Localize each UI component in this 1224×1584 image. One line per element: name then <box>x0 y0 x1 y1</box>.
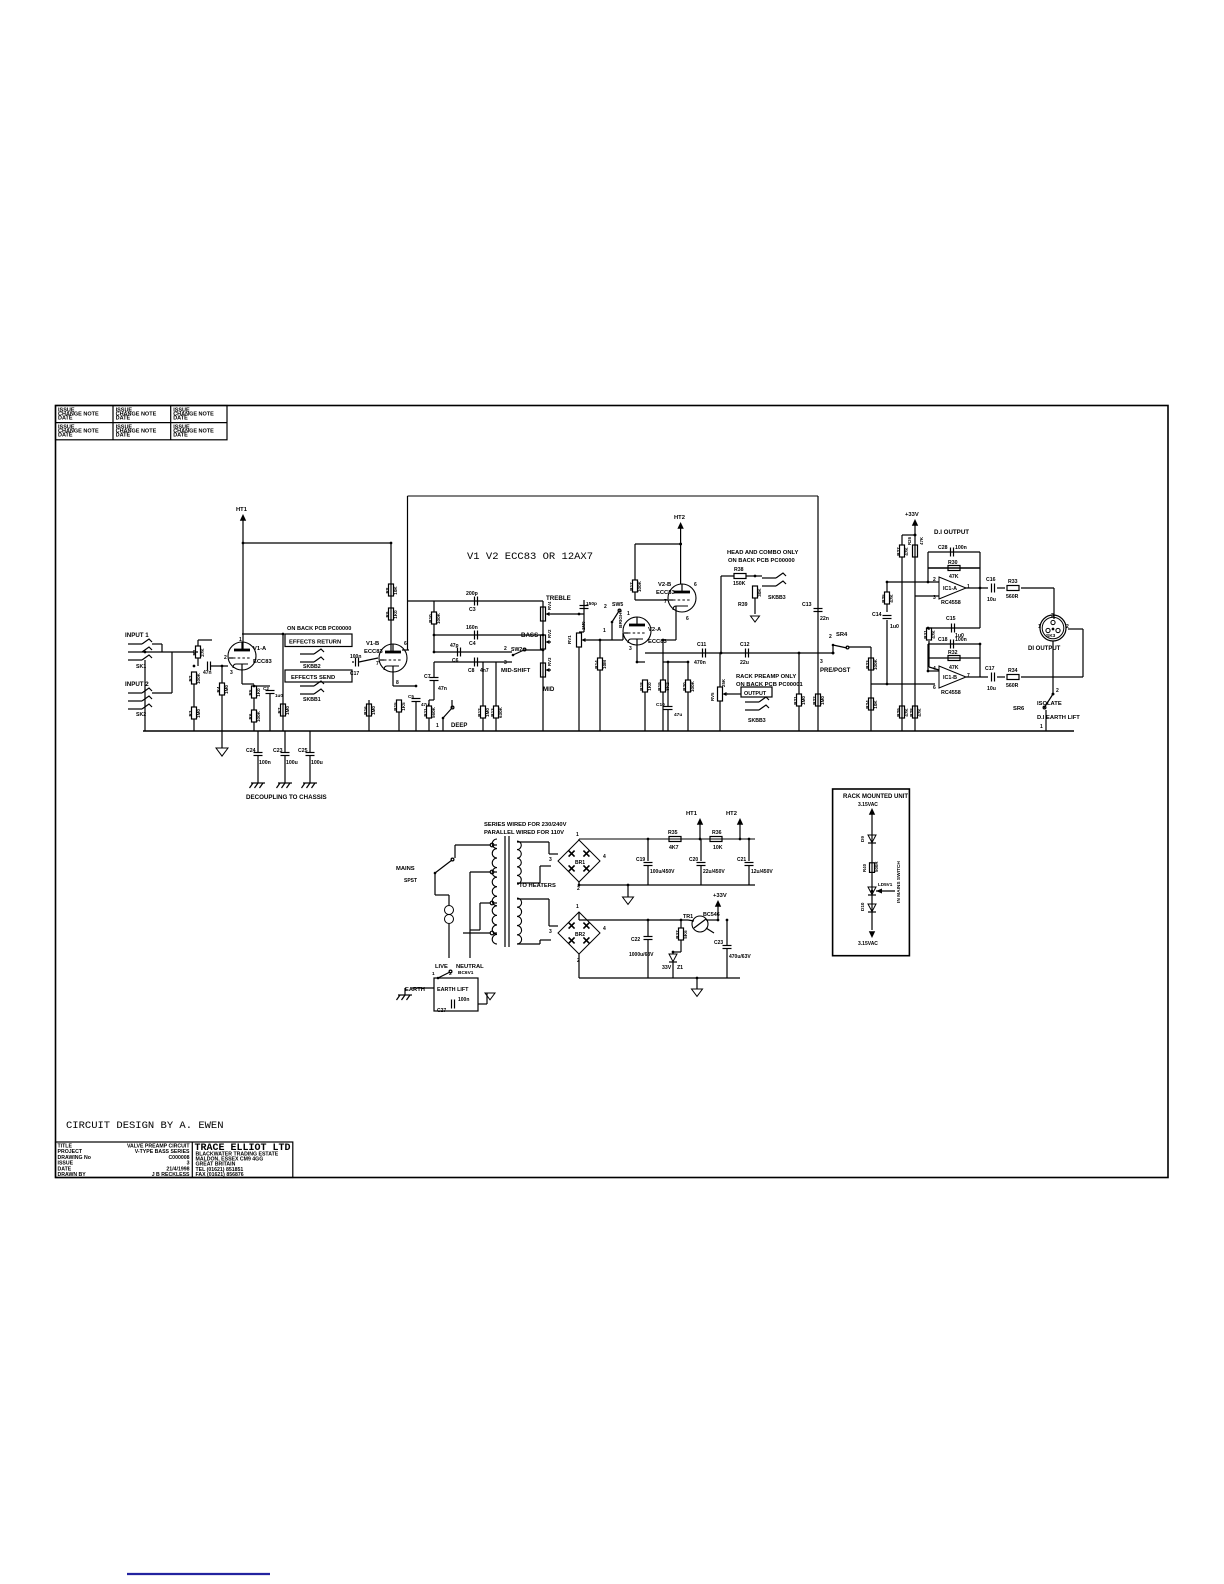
svg-text:C23: C23 <box>714 940 723 946</box>
svg-text:R6: R6 <box>248 713 253 719</box>
svg-text:ON BACK PCB PC00000: ON BACK PCB PC00000 <box>728 558 795 564</box>
svg-text:ISOLATE: ISOLATE <box>1037 701 1062 707</box>
svg-text:1M0: 1M0 <box>801 696 806 705</box>
svg-text:CIRCUIT DESIGN BY A. EWEN: CIRCUIT DESIGN BY A. EWEN <box>66 1120 224 1132</box>
svg-text:SERIES WIRED FOR 230/240V: SERIES WIRED FOR 230/240V <box>484 822 567 828</box>
svg-text:HT1: HT1 <box>236 507 248 513</box>
svg-text:+33V: +33V <box>713 893 727 899</box>
svg-text:R39: R39 <box>738 602 748 608</box>
svg-text:SKBB3: SKBB3 <box>748 718 766 724</box>
svg-text:2: 2 <box>224 655 227 661</box>
svg-text:RC4558: RC4558 <box>941 690 961 696</box>
svg-text:BC6V1: BC6V1 <box>458 970 474 976</box>
svg-text:SKBB3: SKBB3 <box>768 595 786 601</box>
svg-text:10M: 10M <box>602 660 607 669</box>
svg-text:100K: 100K <box>256 710 261 722</box>
svg-text:200p: 200p <box>466 591 478 597</box>
svg-text:100u: 100u <box>311 760 323 766</box>
svg-text:47K: 47K <box>931 630 936 639</box>
svg-text:R2: R2 <box>188 675 193 681</box>
svg-text:C10: C10 <box>656 702 665 708</box>
svg-text:C11: C11 <box>697 642 706 648</box>
svg-text:10u: 10u <box>987 686 996 692</box>
svg-text:SR6: SR6 <box>1013 706 1025 712</box>
svg-text:100K: 100K <box>637 580 642 592</box>
svg-text:1M0: 1M0 <box>285 706 290 715</box>
svg-text:DATE: DATE <box>116 415 131 421</box>
svg-text:R11: R11 <box>423 708 428 717</box>
svg-text:HEAD AND COMBO ONLY: HEAD AND COMBO ONLY <box>727 550 799 556</box>
svg-text:DEEP: DEEP <box>451 723 467 729</box>
svg-text:4n7: 4n7 <box>480 668 489 674</box>
svg-text:22n: 22n <box>820 616 829 622</box>
svg-text:R33: R33 <box>1008 579 1018 585</box>
svg-text:6: 6 <box>694 582 697 588</box>
svg-text:1M0: 1M0 <box>371 706 376 715</box>
svg-text:3: 3 <box>504 660 507 666</box>
svg-text:TREBLE: TREBLE <box>546 595 571 602</box>
svg-text:2: 2 <box>933 577 936 583</box>
svg-text:DATE: DATE <box>116 433 131 439</box>
svg-text:1: 1 <box>1038 624 1041 630</box>
svg-text:DATE: DATE <box>58 415 73 421</box>
svg-text:TO HEATERS: TO HEATERS <box>519 883 556 889</box>
svg-text:47p: 47p <box>450 643 459 649</box>
svg-text:IC1-A: IC1-A <box>943 586 957 592</box>
svg-text:R27: R27 <box>896 547 901 556</box>
svg-text:R29: R29 <box>896 708 901 717</box>
svg-text:47K: 47K <box>949 665 959 671</box>
svg-text:3: 3 <box>820 659 823 665</box>
svg-text:100K: 100K <box>196 672 201 684</box>
svg-text:1u0: 1u0 <box>275 693 283 698</box>
svg-text:2: 2 <box>1056 688 1059 694</box>
svg-text:PRE/POST: PRE/POST <box>820 668 851 674</box>
svg-text:1M0: 1M0 <box>196 709 201 718</box>
svg-text:V2-A: V2-A <box>648 627 662 633</box>
svg-text:R25: R25 <box>881 594 886 603</box>
svg-text:INPUT 1: INPUT 1 <box>125 632 149 639</box>
svg-text:DRAWN BY: DRAWN BY <box>58 1172 87 1178</box>
svg-text:J B RECKLESS: J B RECKLESS <box>152 1172 190 1178</box>
svg-text:IC1-B: IC1-B <box>943 675 957 681</box>
svg-text:R23: R23 <box>865 660 870 669</box>
svg-text:1K0: 1K0 <box>393 610 398 619</box>
svg-text:R10: R10 <box>428 614 433 623</box>
svg-text:1: 1 <box>436 723 439 729</box>
svg-text:RV2: RV2 <box>547 629 552 638</box>
svg-text:BR1: BR1 <box>575 860 585 866</box>
svg-text:R34: R34 <box>1008 668 1018 674</box>
svg-text:R15: R15 <box>393 702 398 711</box>
svg-text:1: 1 <box>432 971 435 977</box>
svg-text:47n: 47n <box>203 670 212 676</box>
svg-text:4: 4 <box>603 926 606 932</box>
svg-text:R26: R26 <box>907 536 912 545</box>
svg-text:DATE: DATE <box>173 415 188 421</box>
svg-text:27K: 27K <box>200 648 205 657</box>
svg-text:ON BACK PCB PC00000: ON BACK PCB PC00000 <box>287 626 351 632</box>
svg-text:SR4: SR4 <box>836 632 848 638</box>
svg-text:1K0: 1K0 <box>647 682 652 691</box>
svg-text:3: 3 <box>549 929 552 935</box>
svg-text:V1 V2 ECC83 OR 12AX7: V1 V2 ECC83 OR 12AX7 <box>467 551 593 563</box>
svg-text:C16: C16 <box>986 577 996 583</box>
svg-text:NEUTRAL: NEUTRAL <box>456 964 484 970</box>
svg-text:150p: 150p <box>586 601 597 607</box>
svg-text:100u/450V: 100u/450V <box>650 869 675 875</box>
svg-text:1: 1 <box>576 904 579 910</box>
svg-text:C20: C20 <box>689 857 698 863</box>
svg-text:BC546: BC546 <box>703 912 720 918</box>
svg-text:BR2: BR2 <box>575 932 585 938</box>
svg-text:R12: R12 <box>477 708 482 717</box>
svg-text:560K: 560K <box>431 706 436 718</box>
svg-text:Z1: Z1 <box>677 965 683 971</box>
svg-text:3: 3 <box>549 857 552 863</box>
svg-text:MID: MID <box>543 686 555 693</box>
svg-text:470n: 470n <box>694 660 706 666</box>
svg-text:D.I OUTPUT: D.I OUTPUT <box>934 529 969 536</box>
svg-text:1M0: 1M0 <box>820 696 825 705</box>
svg-text:R20: R20 <box>682 682 687 691</box>
svg-text:D9: D9 <box>860 836 865 842</box>
svg-text:R40: R40 <box>862 863 867 872</box>
svg-text:C21: C21 <box>737 857 746 863</box>
svg-text:LD5V1: LD5V1 <box>878 882 893 887</box>
svg-text:3: 3 <box>230 670 233 676</box>
svg-text:DATE: DATE <box>58 433 73 439</box>
svg-text:100u: 100u <box>286 760 298 766</box>
svg-text:2: 2 <box>577 886 580 892</box>
svg-text:47K: 47K <box>889 594 894 603</box>
svg-text:FAX (01621) 856876: FAX (01621) 856876 <box>196 1172 244 1178</box>
svg-text:R8: R8 <box>385 587 390 593</box>
svg-text:C13: C13 <box>802 602 812 608</box>
svg-text:C4: C4 <box>469 641 476 647</box>
svg-text:R31: R31 <box>923 630 928 639</box>
svg-text:BRIGHT: BRIGHT <box>618 610 624 628</box>
svg-text:R7: R7 <box>277 707 282 713</box>
svg-text:DECOUPLING TO CHASSIS: DECOUPLING TO CHASSIS <box>246 794 327 801</box>
svg-text:EFFECTS RETURN: EFFECTS RETURN <box>289 640 341 646</box>
svg-text:D10: D10 <box>860 902 865 911</box>
svg-text:SKBB2: SKBB2 <box>303 664 321 670</box>
svg-text:1: 1 <box>239 637 242 643</box>
svg-text:RACK PREAMP ONLY: RACK PREAMP ONLY <box>736 674 796 680</box>
svg-text:1M0: 1M0 <box>224 685 229 694</box>
svg-text:C7: C7 <box>424 674 431 680</box>
svg-text:R16: R16 <box>363 706 368 715</box>
svg-text:R19: R19 <box>657 682 662 691</box>
svg-text:R28: R28 <box>909 708 914 717</box>
svg-text:100n: 100n <box>955 637 967 643</box>
svg-text:100K: 100K <box>690 680 695 692</box>
svg-text:RV1: RV1 <box>567 635 572 644</box>
svg-text:R3: R3 <box>188 710 193 716</box>
svg-text:SK3: SK3 <box>1046 633 1056 639</box>
svg-text:EARTH LIFT: EARTH LIFT <box>437 987 469 993</box>
svg-text:C8: C8 <box>468 668 475 674</box>
svg-text:V1-B: V1-B <box>366 641 379 647</box>
svg-text:EFFECTS SEND: EFFECTS SEND <box>291 675 335 681</box>
svg-text:R36: R36 <box>712 830 722 836</box>
svg-text:47K: 47K <box>919 536 924 545</box>
svg-text:1: 1 <box>576 832 579 838</box>
svg-text:V2-B: V2-B <box>658 582 671 588</box>
svg-text:SKBB1: SKBB1 <box>303 697 321 703</box>
svg-text:C2: C2 <box>263 686 269 691</box>
svg-text:V1-A: V1-A <box>253 646 267 652</box>
svg-text:100n: 100n <box>955 545 967 551</box>
svg-text:C15: C15 <box>946 616 956 622</box>
svg-text:R22: R22 <box>812 696 817 705</box>
svg-text:C28: C28 <box>938 545 948 551</box>
svg-text:1: 1 <box>1040 724 1043 730</box>
svg-text:22u: 22u <box>740 660 749 666</box>
svg-text:150K: 150K <box>733 581 746 587</box>
svg-text:7: 7 <box>376 661 379 667</box>
svg-text:630K: 630K <box>498 706 503 718</box>
svg-text:1: 1 <box>967 584 970 590</box>
svg-text:100K: 100K <box>873 658 878 670</box>
svg-text:R37: R37 <box>675 930 680 939</box>
svg-text:R17: R17 <box>629 582 634 591</box>
svg-text:12u/450V: 12u/450V <box>751 869 773 875</box>
svg-text:6: 6 <box>404 641 407 647</box>
svg-text:10K: 10K <box>393 586 398 595</box>
svg-text:1K0: 1K0 <box>256 688 261 697</box>
svg-text:MID-SHIFT: MID-SHIFT <box>501 668 531 674</box>
svg-text:R13: R13 <box>490 708 495 717</box>
svg-text:C14: C14 <box>872 612 882 618</box>
svg-text:6: 6 <box>686 616 689 622</box>
svg-text:TR1: TR1 <box>683 914 693 920</box>
svg-text:C24: C24 <box>246 748 256 754</box>
svg-text:560R: 560R <box>1006 594 1019 600</box>
svg-text:1: 1 <box>627 611 630 617</box>
svg-text:C3: C3 <box>469 607 476 613</box>
svg-text:R18: R18 <box>639 682 644 691</box>
svg-text:3.15VAC: 3.15VAC <box>858 941 878 947</box>
svg-text:2: 2 <box>829 634 832 640</box>
svg-text:R9: R9 <box>385 611 390 617</box>
svg-text:RACK MOUNTED UNIT: RACK MOUNTED UNIT <box>843 794 908 800</box>
svg-text:R1: R1 <box>192 649 197 655</box>
svg-text:C19: C19 <box>636 857 645 863</box>
svg-text:100n: 100n <box>259 760 271 766</box>
svg-text:100K: 100K <box>436 612 441 624</box>
svg-text:R35: R35 <box>668 830 678 836</box>
svg-text:HT2: HT2 <box>674 515 685 521</box>
svg-text:+33V: +33V <box>905 512 919 518</box>
svg-text:47u: 47u <box>674 712 682 718</box>
svg-text:RV4: RV4 <box>547 601 552 610</box>
svg-text:RC4558: RC4558 <box>941 600 961 606</box>
svg-text:47n: 47n <box>438 686 447 692</box>
svg-text:R24: R24 <box>865 700 870 709</box>
svg-text:R38: R38 <box>734 567 744 573</box>
svg-text:C22: C22 <box>631 937 640 943</box>
svg-text:LIVE: LIVE <box>435 964 448 970</box>
svg-text:47K: 47K <box>917 708 922 717</box>
svg-text:C17: C17 <box>350 671 359 677</box>
svg-text:RV3: RV3 <box>547 657 552 666</box>
svg-text:INPUT 2: INPUT 2 <box>125 681 149 688</box>
svg-text:5K6: 5K6 <box>683 930 688 939</box>
svg-text:10K: 10K <box>713 845 723 851</box>
svg-text:ECC83: ECC83 <box>656 590 675 596</box>
svg-text:SPST: SPST <box>404 878 417 884</box>
svg-text:8: 8 <box>396 680 399 686</box>
svg-text:4K7: 4K7 <box>669 845 679 851</box>
svg-text:C12: C12 <box>740 642 750 648</box>
svg-text:C18: C18 <box>938 637 948 643</box>
svg-text:R14: R14 <box>594 660 599 669</box>
svg-text:MAINS: MAINS <box>396 866 415 872</box>
svg-text:1u0: 1u0 <box>890 624 899 630</box>
svg-text:1K5: 1K5 <box>401 702 406 711</box>
svg-text:100n: 100n <box>458 997 469 1003</box>
svg-text:C23: C23 <box>273 748 283 754</box>
svg-text:R5: R5 <box>248 689 253 695</box>
svg-text:RV5: RV5 <box>710 692 715 701</box>
svg-text:ECC83: ECC83 <box>253 659 272 665</box>
svg-text:BASS: BASS <box>521 632 538 639</box>
svg-text:47K: 47K <box>949 574 959 580</box>
svg-text:HT2: HT2 <box>726 811 737 817</box>
svg-text:D.I EARTH LIFT: D.I EARTH LIFT <box>1037 715 1080 721</box>
svg-text:560R: 560R <box>1006 683 1019 689</box>
svg-text:7: 7 <box>967 673 970 679</box>
svg-text:4: 4 <box>603 854 606 860</box>
svg-text:30K: 30K <box>757 588 762 597</box>
svg-text:PARALLEL WIRED FOR 110V: PARALLEL WIRED FOR 110V <box>484 830 564 836</box>
svg-text:SW5: SW5 <box>612 602 623 608</box>
svg-text:R32: R32 <box>948 650 958 656</box>
svg-text:HT1: HT1 <box>686 811 698 817</box>
svg-text:1000u/63V: 1000u/63V <box>629 952 654 958</box>
svg-text:R4: R4 <box>216 686 221 692</box>
svg-text:C5: C5 <box>408 694 414 699</box>
svg-text:R30: R30 <box>948 560 958 566</box>
svg-text:160n: 160n <box>466 625 478 631</box>
svg-text:3: 3 <box>933 595 936 601</box>
svg-text:10K: 10K <box>873 700 878 709</box>
svg-text:470u/63V: 470u/63V <box>729 954 751 960</box>
svg-text:500R: 500R <box>874 861 879 872</box>
svg-text:2: 2 <box>504 646 507 652</box>
svg-text:1M0: 1M0 <box>581 621 586 630</box>
svg-text:47K: 47K <box>904 547 909 556</box>
svg-text:DATE: DATE <box>173 433 188 439</box>
svg-text:IN MAINS SWITCH: IN MAINS SWITCH <box>896 861 902 903</box>
svg-text:C6: C6 <box>452 658 459 664</box>
svg-text:2: 2 <box>604 604 607 610</box>
svg-text:10u: 10u <box>987 597 996 603</box>
svg-text:C27: C27 <box>437 1008 446 1014</box>
svg-text:R21: R21 <box>793 696 798 705</box>
svg-text:OUTPUT: OUTPUT <box>744 691 767 697</box>
svg-text:33V: 33V <box>662 965 672 971</box>
svg-text:3: 3 <box>629 646 632 652</box>
svg-text:1: 1 <box>603 628 606 634</box>
svg-text:25K: 25K <box>721 678 726 687</box>
svg-text:22u/450V: 22u/450V <box>703 869 725 875</box>
svg-text:6: 6 <box>933 685 936 691</box>
svg-text:C17: C17 <box>985 666 995 672</box>
svg-text:ECC83: ECC83 <box>364 649 383 655</box>
svg-text:DI OUTPUT: DI OUTPUT <box>1028 646 1061 652</box>
svg-text:C25: C25 <box>298 748 308 754</box>
svg-text:3.15VAC: 3.15VAC <box>858 802 878 808</box>
